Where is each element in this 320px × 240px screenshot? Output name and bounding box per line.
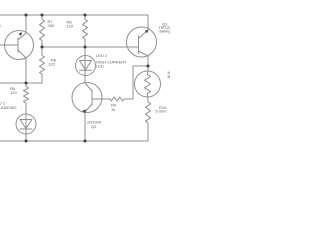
wire node stub left y83 [0, 82, 42, 84]
wire Q1 base stub [0, 44, 18, 46]
svg-text:120: 120 [10, 90, 17, 95]
wire bottom rail [0, 123, 148, 141]
resistor R7 330 [40, 15, 45, 47]
wire top rail [0, 15, 148, 30]
resistor R9 1k [110, 97, 124, 101]
svg-text:Q2: Q2 [91, 124, 97, 129]
resistor R6b (lower-left, 120) [24, 83, 29, 114]
svg-text:120: 120 [48, 61, 55, 66]
LED 2 high-current [76, 56, 96, 76]
arrowhead Q3 emitter [145, 30, 149, 34]
transistor Q2 [72, 83, 102, 113]
svg-text:4: 4 [0, 23, 2, 28]
resistor R10 5ohm [146, 102, 151, 123]
svg-text:LED: LED [96, 63, 104, 68]
LED 1 (balancing) [16, 114, 36, 134]
svg-text:1k: 1k [111, 107, 115, 112]
svg-text:B: B [168, 74, 171, 79]
arrowhead Q2 emitter [82, 110, 86, 114]
resistor R6 (upper, 120) [40, 47, 45, 83]
arrowhead Q1 emitter [19, 32, 23, 36]
lamp/load M1 [135, 71, 161, 97]
svg-text:darlingto: darlingto [159, 29, 171, 34]
transistor Q1 [5, 31, 34, 60]
svg-text:120: 120 [67, 24, 74, 29]
svg-text:330: 330 [48, 23, 55, 28]
transistor Q3 [127, 27, 157, 57]
wire R9 to Q3 emitter node [124, 66, 148, 99]
svg-text:LED 2: LED 2 [96, 53, 108, 58]
wire mid rail [42, 46, 139, 48]
junction dots [25, 14, 28, 17]
resistor R8 120 [83, 15, 88, 47]
svg-text:BALANCING: BALANCING [0, 105, 17, 110]
svg-text:5 ohm: 5 ohm [156, 109, 168, 114]
